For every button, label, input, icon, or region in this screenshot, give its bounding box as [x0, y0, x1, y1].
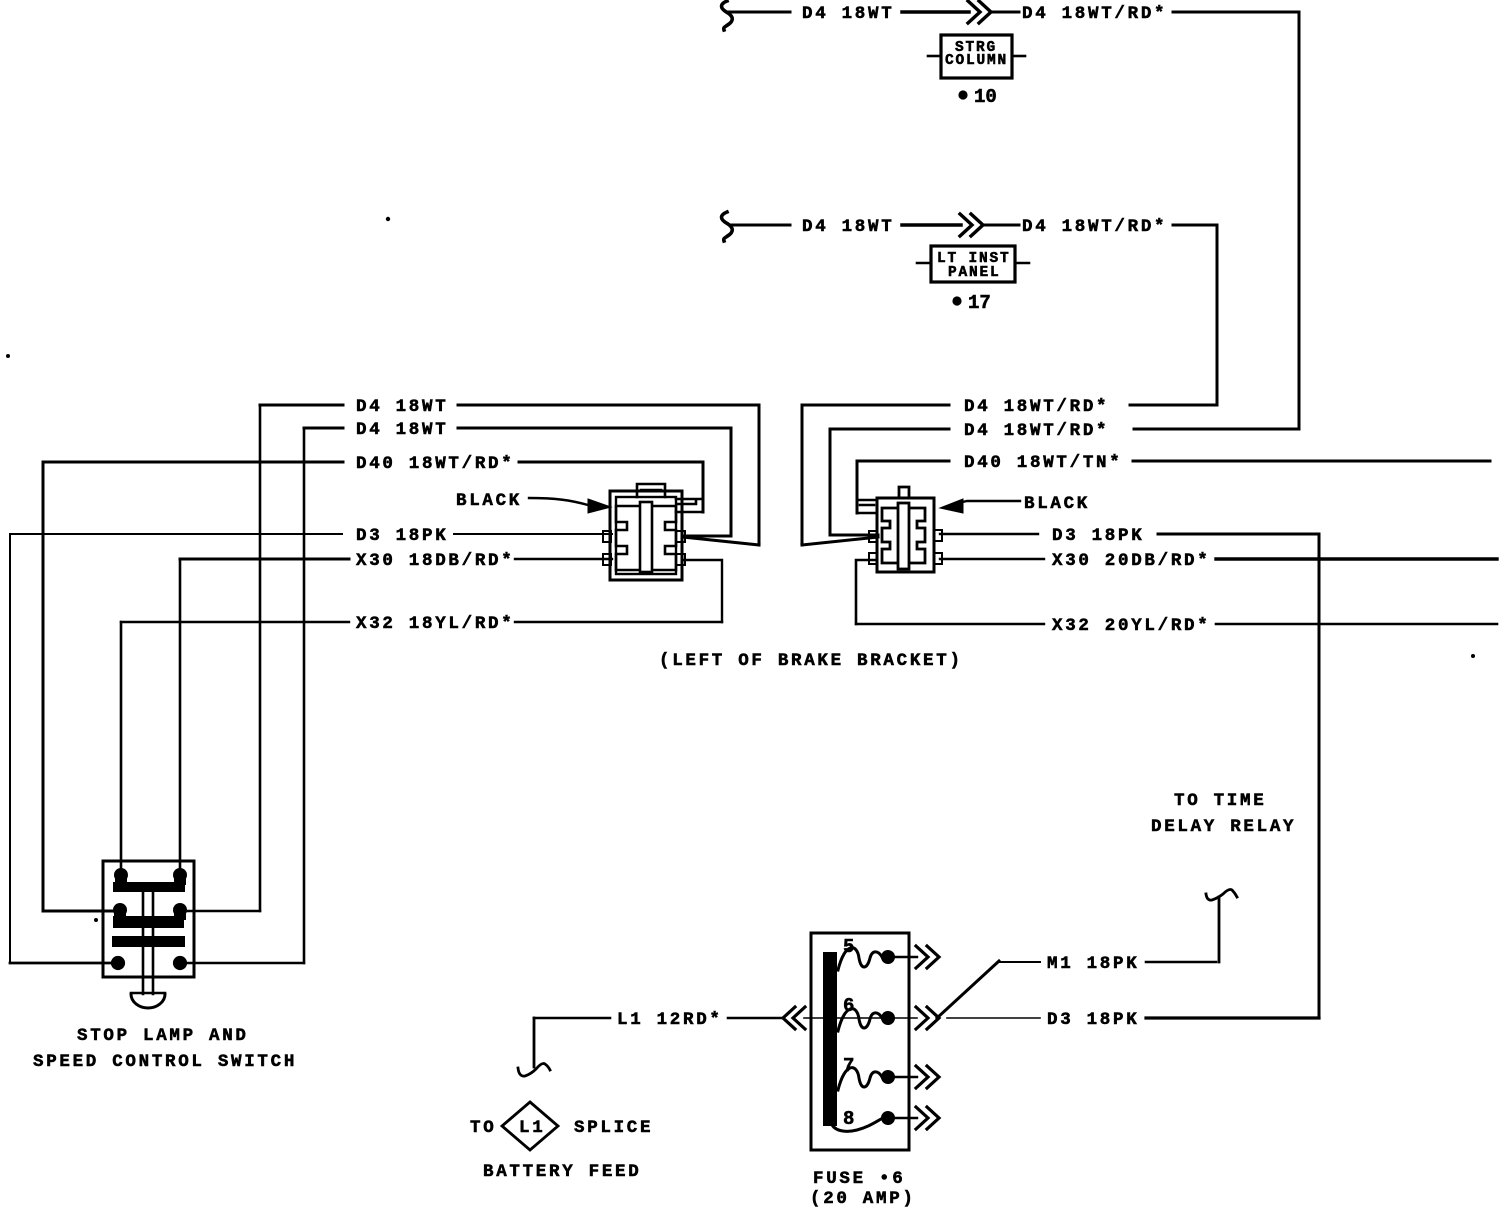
svg-text:SPEED CONTROL SWITCH: SPEED CONTROL SWITCH — [33, 1052, 297, 1072]
wire D4 18WT row2 right run — [458, 427, 731, 430]
wire X32 20YL/RD* lead — [856, 623, 1044, 625]
connector C1 center key bar — [640, 502, 652, 572]
switch S1 mid-right terminal — [173, 903, 187, 917]
svg-text:L1 12RD*: L1 12RD* — [617, 1010, 723, 1030]
svg-text:PANEL: PANEL — [948, 265, 1001, 281]
wire riser D4/RD* row1 — [801, 405, 804, 545]
wire X30 18DB/RD* left lead — [180, 558, 349, 561]
connector C1 (left half, black 6-way) outer shell — [610, 491, 682, 580]
connector C2 mid-right pin stub — [934, 530, 942, 541]
fuse element row 7 — [838, 1068, 882, 1090]
wire from switch bottom-right terminal to D4 row2 riser — [185, 962, 304, 964]
wire D3 18PK lead (fuse row 6) — [947, 1017, 1040, 1019]
wire D4 18WT/RD* row1 lead — [802, 404, 949, 407]
wire X32 18YL/RD* left lead — [121, 621, 349, 623]
wire splice drop vertical — [533, 1018, 536, 1067]
wire D4 18WT row1 right run to gap riser — [458, 404, 759, 407]
switch S1 stop lamp and speed control switch body — [103, 861, 194, 977]
stub left of STRG COLUMN box — [928, 55, 941, 58]
wire X30 20DB/RD* from connector bottom-right pin — [940, 558, 1044, 560]
fuse element row 5 — [838, 948, 882, 970]
chevrons out row 6 — [916, 1007, 939, 1029]
svg-text:TO TIME: TO TIME — [1174, 791, 1266, 811]
wire into right connector mid-left pin (row2) — [830, 534, 878, 537]
switch S1 plunger stem — [143, 892, 153, 994]
svg-text:X32 20YL/RD*: X32 20YL/RD* — [1052, 616, 1210, 636]
connector C2 bottom-right pin stub — [934, 553, 942, 564]
svg-text:D4 18WT/RD*: D4 18WT/RD* — [1022, 4, 1167, 24]
svg-text:BLACK: BLACK — [456, 491, 522, 511]
component box STRG COLUMN — [941, 35, 1012, 78]
svg-text:COLUMN: COLUMN — [945, 53, 1008, 69]
connector C1 bottom-left pin stub — [603, 554, 611, 565]
wire X32 from right connector bottom-left pin — [856, 560, 877, 624]
svg-text:SPLICE: SPLICE — [574, 1118, 653, 1138]
wire D3 18PK left lead — [10, 533, 342, 535]
wire row 5 out — [895, 956, 917, 958]
fuse element row 8 — [831, 1119, 881, 1131]
wire D4 18WT lead (top) — [729, 11, 790, 14]
svg-text:X30 20DB/RD*: X30 20DB/RD* — [1052, 551, 1210, 571]
svg-text:STOP LAMP AND: STOP LAMP AND — [77, 1026, 249, 1046]
wire X30 20DB/RD* right run — [1216, 557, 1497, 560]
switch S1 middle contact bar — [113, 916, 184, 928]
connector C1 inner shell — [616, 497, 676, 574]
wire X32 riser to left connector bottom-right pin — [683, 560, 722, 622]
speck dot — [94, 918, 98, 922]
leader line BLACK to right connector — [958, 501, 1020, 503]
svg-text:D4 18WT/RD*: D4 18WT/RD* — [964, 397, 1109, 417]
wire vertical drop to lower D4 18WT/RD* row — [1298, 12, 1301, 428]
svg-text:M1 18PK: M1 18PK — [1047, 954, 1139, 974]
wire X32 20YL/RD* right run — [1216, 623, 1497, 626]
svg-text:D4 18WT: D4 18WT — [356, 397, 448, 417]
wire D3 18PK to left connector mid-left pin — [454, 533, 612, 535]
inline connector chevrons (STRG COLUMN #10) — [968, 1, 991, 23]
wire riser D40/TN to right connector wing — [856, 461, 859, 513]
connector C2 (right half, black 6-way) outer shell — [877, 498, 934, 572]
connector C1 mid-left pin stub — [603, 531, 611, 542]
svg-text:D3 18PK: D3 18PK — [1052, 526, 1144, 546]
connector C2 mid-left pin stub — [869, 531, 877, 542]
wire vertical X30 to switch top-right terminal — [179, 559, 182, 875]
component box LT INST PANEL — [931, 246, 1015, 282]
switch S1 top contact bar — [113, 882, 185, 892]
wire break symbol above splice — [518, 1064, 550, 1077]
wire vertical D3 to switch bottom-left — [9, 534, 11, 963]
svg-text:TO: TO — [470, 1118, 496, 1138]
wire D4 18WT row2 left lead — [304, 427, 343, 430]
switch S1 actuator bar — [112, 936, 185, 947]
connector C1 mid-right pin stub — [676, 531, 685, 542]
wire D4/RD* row2 to riser of #10 — [1134, 428, 1299, 431]
svg-text:D4 18WT/RD*: D4 18WT/RD* — [1022, 217, 1167, 237]
wire vertical D4 row1 to switch mid-right terminal — [259, 405, 262, 911]
wire from switch mid-right terminal to D4 row1 riser — [185, 910, 260, 912]
fuse block bus bar — [823, 952, 837, 1126]
wire D4 18WT row1 left lead — [260, 404, 343, 407]
speck dot — [1471, 654, 1475, 658]
wire into left connector mid-right pin (row2) — [683, 535, 731, 538]
connector C2 bottom-left pin stub — [869, 553, 877, 564]
svg-text:10: 10 — [974, 86, 997, 108]
terminal dot row 7 — [881, 1070, 895, 1084]
wire break symbol, circuit D4 feed (second) — [722, 212, 733, 241]
speck dot — [6, 354, 10, 358]
wire D3 into switch bottom-left terminal — [10, 962, 112, 965]
chevrons out row 8 — [916, 1107, 939, 1129]
wire M1 riser to time delay relay — [1218, 897, 1221, 962]
switch S1 mid-left terminal — [113, 903, 127, 917]
terminal dot row 8 — [881, 1111, 895, 1125]
wire D4 18WT/RD* row2 lead — [830, 428, 949, 431]
svg-text:BLACK: BLACK — [1024, 494, 1090, 514]
wire D4 18WT to inline connector #17 — [902, 223, 961, 227]
connector C2 top-left wing — [857, 500, 877, 513]
wire D3 18PK right run to vertical — [1146, 1016, 1319, 1019]
connector C1 right terminal comb — [654, 506, 676, 570]
wire D40 into switch mid-left terminal — [43, 910, 114, 913]
wire D3 18PK right run — [1158, 533, 1319, 536]
wire D4 18WT lead (second) — [731, 224, 790, 227]
connector C1 top-right wing — [676, 499, 703, 512]
wire riser D40 to left connector wing — [702, 462, 705, 512]
wire break symbol to time delay relay — [1206, 890, 1237, 901]
wire vertical D3 18PK down to fuse row 6 — [1318, 534, 1321, 1018]
svg-text:BATTERY FEED: BATTERY FEED — [483, 1162, 641, 1182]
switch S1 top-right terminal — [173, 868, 187, 882]
wire M1 18PK right run — [1146, 961, 1216, 964]
wire row 8 out — [895, 1117, 917, 1119]
chevrons out row 7 — [916, 1066, 939, 1088]
connector C2 right terminal comb — [911, 508, 925, 563]
switch S1 bottom-right terminal — [173, 956, 187, 970]
wire D4 18WT/RD* right run (top) — [1173, 11, 1299, 14]
chevrons into fuse (left, female) — [783, 1007, 805, 1029]
wire D4/RD* row1 to riser of #17 — [1130, 404, 1217, 407]
svg-text:D4 18WT/RD*: D4 18WT/RD* — [964, 421, 1109, 441]
svg-text:17: 17 — [968, 292, 991, 314]
wire M1 18PK lead — [999, 961, 1040, 963]
svg-text:L1: L1 — [519, 1118, 545, 1138]
svg-text:FUSE •6: FUSE •6 — [813, 1169, 905, 1189]
wire break symbol, circuit D4 feed (top) — [722, 1, 733, 30]
connector C2 center key bar — [898, 503, 909, 569]
svg-text:D40 18WT/RD*: D40 18WT/RD* — [356, 454, 514, 474]
wire D40 18WT/RD* left lead — [43, 461, 343, 464]
connector C1 top tab — [637, 484, 665, 497]
wire diagonal from right connector mid-left pin (row1) — [802, 537, 878, 545]
wire D40 right run to connector wing — [519, 461, 703, 464]
inline connector chevrons (LT INST PANEL #17) — [960, 214, 983, 236]
wire X32 right run — [515, 621, 722, 623]
fuse block #6 body — [811, 933, 909, 1150]
wire D4 18WT to inline connector #10 — [902, 10, 969, 14]
wire row 6 out — [895, 1017, 917, 1019]
svg-text:D4 18WT: D4 18WT — [802, 4, 894, 24]
stub right of STRG COLUMN box — [1012, 55, 1025, 58]
wire L1 12RD* to fuse block — [728, 1017, 783, 1020]
svg-text:8: 8 — [843, 1108, 854, 1130]
wire X30 to left connector bottom-left pin — [515, 558, 612, 560]
stub right of LT INST PANEL box — [1015, 262, 1029, 265]
svg-text:(LEFT OF BRAKE BRACKET): (LEFT OF BRAKE BRACKET) — [659, 651, 963, 671]
svg-text:(20 AMP): (20 AMP) — [810, 1189, 916, 1208]
wire vertical D4 row2 to switch bottom-right terminal — [303, 428, 306, 963]
label #10 — [958, 90, 967, 99]
leader line BLACK to left connector — [529, 498, 588, 505]
svg-text:X30 18DB/RD*: X30 18DB/RD* — [356, 551, 514, 571]
wire diagonal into left connector mid-right pin — [683, 537, 759, 545]
switch S1 plunger cap — [131, 992, 165, 994]
wire to label D4 18WT/RD* (second) — [983, 224, 1019, 227]
wire riser D4 row2 at connector gap — [730, 428, 733, 536]
label #17 — [952, 296, 961, 305]
wire D4 18WT/RD* right run (second) — [1173, 224, 1217, 227]
svg-text:DELAY RELAY: DELAY RELAY — [1151, 817, 1296, 837]
connector C2 left terminal comb — [882, 508, 896, 563]
wire vertical X32 to switch top-left terminal — [120, 622, 123, 875]
svg-text:X32 18YL/RD*: X32 18YL/RD* — [356, 614, 514, 634]
wire D3 18PK from right connector mid-right pin — [940, 533, 1038, 535]
terminal dot row 6 — [881, 1011, 895, 1025]
wire vertical D40 to switch mid-left terminal — [42, 462, 45, 911]
wire riser D4/RD* row2 — [829, 429, 832, 535]
svg-text:D4 18WT: D4 18WT — [802, 217, 894, 237]
svg-text:D3 18PK: D3 18PK — [356, 526, 448, 546]
wire vertical drop to first D4 18WT/RD* row — [1216, 225, 1219, 404]
switch S1 top-left terminal — [114, 868, 128, 882]
connector C1 left terminal comb — [616, 506, 638, 570]
arrowhead BLACK left connector — [588, 499, 611, 513]
chevrons out row 5 — [916, 946, 939, 968]
speck dot — [386, 217, 390, 221]
wire row 7 out — [895, 1076, 917, 1078]
wire diagonal from fuse row 6 to M1 branch — [937, 961, 999, 1018]
wire to label D4 18WT/RD* — [991, 11, 1019, 14]
connector C2 top tab — [899, 487, 909, 498]
svg-text:D40 18WT/TN*: D40 18WT/TN* — [964, 453, 1122, 473]
svg-text:D3 18PK: D3 18PK — [1047, 1010, 1139, 1030]
arrowhead BLACK right connector — [940, 499, 963, 513]
fuse row 6 feed line through block — [804, 1017, 882, 1019]
switch S1 bottom-left terminal — [111, 956, 125, 970]
stub left of LT INST PANEL box — [917, 262, 931, 265]
connector C1 bottom-right pin stub — [676, 554, 685, 565]
fuse element row 6 — [838, 1009, 882, 1031]
terminal dot row 5 — [881, 950, 895, 964]
wire D40 18WT/TN* right run — [1133, 460, 1490, 463]
wire riser D4 row1 at connector gap — [758, 405, 761, 545]
wire D40 18WT/TN* lead — [857, 460, 949, 463]
svg-text:D4 18WT: D4 18WT — [356, 420, 448, 440]
splice symbol L1 diamond — [502, 1102, 558, 1150]
wire L1 12RD* left lead to splice drop — [534, 1017, 610, 1020]
